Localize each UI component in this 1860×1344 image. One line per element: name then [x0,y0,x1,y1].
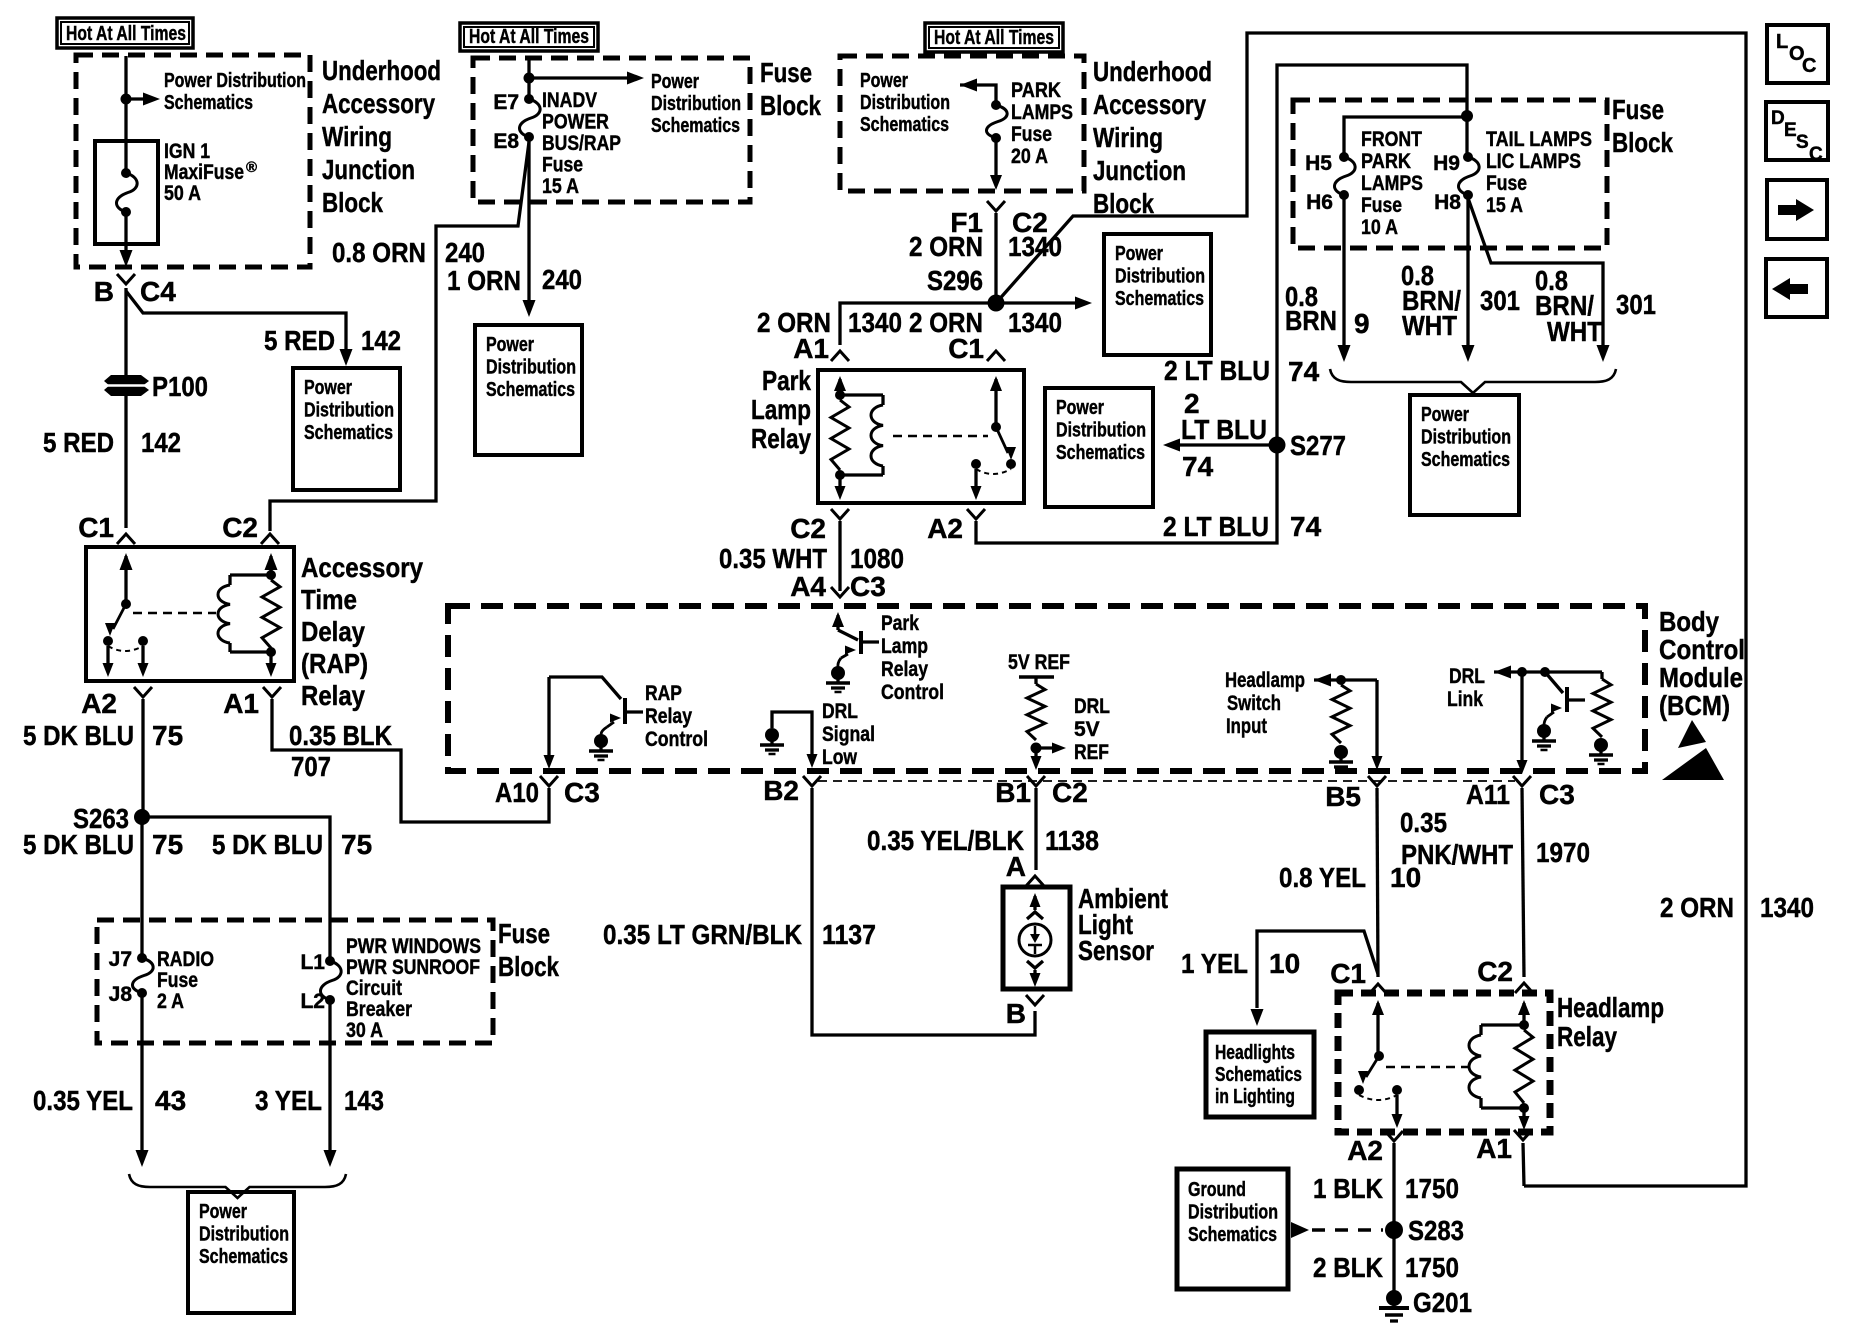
connector C2 (RAP relay) [261,534,279,544]
svg-text:Fuse: Fuse [498,918,550,949]
svg-text:9: 9 [1354,308,1370,339]
svg-text:A1: A1 [223,688,259,719]
svg-text:PWR SUNROOF: PWR SUNROOF [346,956,480,979]
svg-text:B5: B5 [1325,781,1361,812]
label Hot At All Times (second) [460,23,598,51]
svg-text:(BCM): (BCM) [1659,690,1730,721]
svg-text:43: 43 [155,1085,186,1116]
svg-text:Relay: Relay [301,680,365,711]
wire Hot At All Times to INADV fuse [527,59,530,99]
svg-text:Power: Power [1115,243,1163,265]
DRL link transistor element [1545,672,1563,693]
svg-text:G201: G201 [1413,1287,1472,1318]
connector B1 C2 [1027,776,1045,786]
svg-text:C1: C1 [948,333,984,364]
svg-text:PWR WINDOWS: PWR WINDOWS [346,935,481,958]
svg-text:Block: Block [1093,188,1154,219]
svg-text:Hot At All Times: Hot At All Times [934,27,1054,49]
pass-through grommet P100 [104,375,149,387]
svg-text:DRL: DRL [1074,695,1110,718]
fuse INADV POWER BUS/RAP 15 A [524,94,534,104]
svg-text:Breaker: Breaker [346,998,412,1021]
connector A10 C3 [540,776,558,786]
wire A2 to G201 [1392,1143,1395,1295]
svg-text:Link: Link [1447,688,1483,711]
connector C1 (park lamp relay) [987,351,1005,361]
wire B5 to headlamp relay C1 (0.8 YEL 10) [1377,788,1378,977]
svg-text:Fuse: Fuse [542,154,583,177]
nav button previous (left arrow) [1766,259,1827,317]
wire breaker output 3 YEL 143 [328,1000,331,1150]
svg-text:30 A: 30 A [346,1019,383,1042]
svg-text:Schematics: Schematics [486,379,575,401]
svg-text:1 ORN: 1 ORN [447,265,521,296]
wire fuse output to connector C4 [124,212,127,250]
svg-text:Control: Control [1659,634,1745,665]
circuit breaker PWR WINDOWS PWR SUNROOF 30 A [325,956,335,966]
svg-text:in Lighting: in Lighting [1215,1086,1295,1108]
connector C1 (headlamp relay) [1369,984,1387,994]
svg-text:A1: A1 [793,333,829,364]
svg-text:L2: L2 [300,990,325,1013]
svg-text:WHT: WHT [1547,316,1602,347]
svg-text:5 DK BLU: 5 DK BLU [212,829,323,860]
RAP relay coil and resistor parallel branch [265,553,278,570]
wire 0.35 PNK/WHT 1970 (A11 to headlamp relay C2) [1522,788,1524,977]
ground (DRL signal low) [765,728,779,742]
wire 2 ORN 1340 from S296 to headlamp relay A1 (long route) [996,33,1746,1186]
junction block dashed box (Underhood Accessory Wiring Junction Block, left) [76,55,310,267]
ground (DRL link transistor) [1537,724,1551,738]
module dashed box Body Control Module (BCM) [448,606,1645,771]
wire S296 left branch to park lamp relay A1 [840,303,996,345]
svg-text:5V REF: 5V REF [1008,651,1070,674]
svg-text:LIC LAMPS: LIC LAMPS [1486,150,1581,173]
svg-text:301: 301 [1480,285,1520,316]
thin dashed connector row line under BCM [818,780,1515,782]
svg-text:POWER: POWER [542,111,609,134]
svg-text:REF: REF [1074,741,1109,764]
svg-text:B: B [1006,998,1026,1029]
svg-text:74: 74 [1288,356,1320,387]
connector A2 (headlamp relay) [1385,1131,1403,1141]
nav button LOC [1767,25,1828,83]
svg-text:Switch: Switch [1227,692,1281,715]
junction block dashed box (PARK LAMPS fuse) [840,56,1084,191]
svg-text:RADIO: RADIO [157,948,214,971]
svg-text:Relay: Relay [751,423,811,454]
svg-text:S296: S296 [927,265,983,296]
svg-text:Schematics: Schematics [304,422,393,444]
wire 5 RED 142 down to C1 [124,394,127,528]
svg-text:707: 707 [291,751,331,782]
svg-text:0.8 YEL: 0.8 YEL [1279,862,1366,893]
connector A4 C3 [831,587,849,597]
svg-text:74: 74 [1182,451,1214,482]
svg-text:1 YEL: 1 YEL [1181,948,1248,979]
wire branch 1 YEL 10 to Headlights Schematics in Lighting [1257,931,1378,1008]
ESD sensitivity symbol [1678,720,1706,748]
svg-text:Delay: Delay [301,616,365,647]
svg-text:Block: Block [760,90,821,121]
svg-text:Schematics: Schematics [651,115,740,137]
svg-text:0.35: 0.35 [1400,807,1447,838]
reference box Headlights Schematics in Lighting [1206,1032,1314,1117]
wire F1 to S296 [994,213,997,303]
node S263 [134,809,150,825]
svg-text:C1: C1 [78,512,114,543]
svg-text:5V: 5V [1074,718,1100,741]
RAP relay contact arrows to A2/A1 side [106,646,109,664]
svg-text:Control: Control [645,728,708,751]
svg-text:C4: C4 [140,276,176,307]
svg-text:A1: A1 [1476,1133,1512,1164]
svg-text:Power Distribution: Power Distribution [164,70,306,92]
wire feed to FRONT PARK LAMPS fuse H5 [1344,117,1467,157]
connector A (ambient light sensor) [1026,876,1044,886]
svg-text:Lamp: Lamp [751,394,811,425]
svg-text:75: 75 [152,829,183,860]
headlamp relay coil and resistor from C2 [1518,1000,1530,1015]
svg-text:Distribution: Distribution [304,400,394,422]
node S283 [1385,1221,1403,1239]
wire headlamp switch input to B5 [1375,680,1378,757]
svg-text:Accessory: Accessory [322,88,435,119]
svg-text:2 ORN: 2 ORN [1660,892,1734,923]
resistor (DRL link) [1600,672,1603,679]
svg-text:15 A: 15 A [542,175,579,198]
svg-text:A: A [1006,851,1026,882]
RAP relay dashed actuation link [133,612,216,615]
svg-text:Distribution: Distribution [1188,1202,1278,1224]
svg-text:A4: A4 [790,571,826,602]
svg-text:1080: 1080 [850,543,904,574]
connector B (ambient light sensor) [1026,995,1044,1005]
svg-text:P100: P100 [152,371,208,402]
svg-text:®: ® [246,159,257,176]
connector A1 (headlamp relay) [1514,1130,1532,1140]
reference box Power Distribution Schematics (right of S296) [1104,234,1211,355]
svg-text:Signal: Signal [822,723,875,746]
reference box Power Distribution Schematics (below INADV) [475,325,582,455]
svg-text:PARK: PARK [1011,79,1061,102]
svg-text:A11: A11 [1466,779,1510,810]
wire H8 output 0.8 BRN/WHT 301 (straight) [1466,195,1469,345]
svg-text:H5: H5 [1305,152,1332,175]
svg-text:0.35 WHT: 0.35 WHT [719,543,827,574]
svg-text:Relay: Relay [1557,1021,1617,1052]
svg-text:Headlamp: Headlamp [1225,669,1305,692]
svg-text:Junction: Junction [1093,155,1186,186]
connector A1 (park lamp relay) [831,351,849,361]
svg-text:2 LT BLU: 2 LT BLU [1164,355,1270,386]
wire H6 output 0.8 BRN 9 [1342,195,1345,345]
reference box Power Distribution Schematics (right of park lamp relay) [1045,388,1153,507]
svg-text:Module: Module [1659,662,1743,693]
svg-text:10: 10 [1269,948,1300,979]
svg-text:E7: E7 [493,91,519,114]
svg-text:TAIL LAMPS: TAIL LAMPS [1486,128,1592,151]
wire S263 branch to PWR WINDOWS breaker [142,817,330,961]
svg-text:BUS/RAP: BUS/RAP [542,132,621,155]
RAP relay switch common from C1 [120,553,133,570]
svg-text:Distribution: Distribution [199,1224,289,1246]
connector A11 C3 [1513,776,1531,786]
fuse IGN 1 MaxiFuse 50 A element [121,168,131,178]
fuse IGN 1 MaxiFuse 50 A outline [95,141,158,244]
svg-text:1750: 1750 [1405,1173,1459,1204]
nav button DESC [1766,102,1828,160]
svg-text:Park: Park [881,612,919,635]
wire 0.35 BLK 707 from RAP relay A1 to BCM A10 [272,699,549,822]
svg-text:J7: J7 [109,948,132,971]
svg-text:B: B [94,276,114,307]
wire A1 to 2 ORN 1340 line [1523,1143,1524,1186]
svg-text:Body: Body [1659,606,1719,637]
svg-text:Block: Block [498,951,559,982]
svg-text:Power: Power [304,377,352,399]
transistor RAP Relay Control [547,677,550,758]
svg-text:DRL: DRL [822,700,858,723]
svg-text:Block: Block [1612,127,1673,158]
svg-text:Relay: Relay [881,658,928,681]
svg-text:Power: Power [860,70,908,92]
svg-text:5 DK BLU: 5 DK BLU [23,720,134,751]
svg-text:C: C [1802,55,1816,77]
svg-text:5 DK BLU: 5 DK BLU [23,829,134,860]
svg-text:H6: H6 [1306,191,1333,214]
svg-text:Time: Time [301,584,357,615]
svg-text:1340: 1340 [848,307,902,338]
svg-text:Wiring: Wiring [1093,122,1163,153]
wire RADIO fuse output 0.35 YEL 43 [140,993,143,1150]
svg-text:INADV: INADV [542,89,597,112]
park lamp relay dashed actuation link [893,435,988,438]
svg-text:2 BLK: 2 BLK [1313,1252,1383,1283]
label Hot At All Times (left) [57,18,193,48]
svg-text:L1: L1 [300,951,325,974]
connector A2 (park lamp relay bottom) [967,509,985,519]
node junction to Power Distribution Schematics (second) [524,73,535,84]
svg-text:A2: A2 [927,513,963,544]
svg-text:C2: C2 [1477,956,1513,987]
svg-text:Control: Control [881,681,944,704]
label Hot At All Times (third) [925,23,1063,52]
svg-text:50 A: 50 A [164,182,201,205]
svg-text:1340: 1340 [1760,892,1814,923]
svg-text:Power: Power [651,71,699,93]
svg-text:Power: Power [486,334,534,356]
svg-text:C: C [1809,144,1823,165]
ground (park lamp relay control) [831,666,845,680]
svg-text:Low: Low [822,746,858,769]
svg-text:C1: C1 [1330,958,1366,989]
dashed wire from Ground Distribution Schematics to S283 [1291,1222,1309,1238]
svg-text:H9: H9 [1433,152,1460,175]
svg-text:75: 75 [341,829,372,860]
connector A2 (RAP relay) [134,687,152,697]
fuse RADIO 2 A [137,953,147,963]
svg-text:0.35 YEL/BLK: 0.35 YEL/BLK [867,825,1024,856]
svg-text:1340: 1340 [1008,231,1062,262]
wire connector C4 to P100 [124,288,127,377]
svg-text:D: D [1771,108,1785,129]
transistor Park Lamp Relay Control [832,612,844,627]
svg-text:A2: A2 [81,688,117,719]
svg-text:1138: 1138 [1045,825,1099,856]
node fuse block feed junction [1461,110,1473,122]
svg-text:Headlights: Headlights [1215,1042,1295,1064]
wire DRL Signal Low to B2 [772,712,812,754]
fuse PARK LAMPS 20 A [991,100,1001,110]
svg-text:0.35 YEL: 0.35 YEL [33,1085,133,1116]
svg-text:Fuse: Fuse [1612,94,1664,125]
svg-text:Schematics: Schematics [1421,449,1510,471]
svg-text:Wiring: Wiring [322,121,392,152]
svg-text:WHT: WHT [1402,310,1457,341]
arrow to Power Distribution Schematics (third, pointing left) [960,79,977,92]
svg-text:10: 10 [1390,862,1421,893]
relay box Accessory Time Delay (RAP) Relay [86,547,294,681]
svg-text:Distribution: Distribution [1056,420,1146,442]
svg-text:1340: 1340 [1008,307,1062,338]
svg-text:5 RED: 5 RED [43,427,114,458]
svg-text:3 YEL: 3 YEL [255,1085,322,1116]
arrow to Power Distribution Schematics (second) [529,76,628,79]
svg-text:Power: Power [1421,404,1469,426]
connector A1 (RAP relay) [263,687,281,697]
svg-text:B2: B2 [763,775,799,806]
svg-text:Power: Power [1056,397,1104,419]
svg-text:LAMPS: LAMPS [1011,101,1073,124]
relay box Park Lamp Relay [818,370,1024,503]
svg-text:C2: C2 [1052,777,1088,808]
svg-text:74: 74 [1290,511,1322,542]
RAP relay switch pivot [121,599,131,609]
brace to Power Distribution Schematics (bottom left) [129,1174,346,1198]
svg-text:PARK: PARK [1361,150,1411,173]
arrow to Power Distribution Schematics [126,97,148,100]
svg-text:B1: B1 [995,777,1031,808]
svg-text:Schematics: Schematics [1188,1224,1277,1246]
relay dashed box Headlamp Relay [1338,993,1550,1132]
ground (RAP relay control) [594,734,608,748]
svg-text:240: 240 [542,264,582,295]
ground (DRL link resistor) [1594,738,1608,752]
svg-text:DRL: DRL [1449,665,1485,688]
park lamp relay switch from C1 [990,376,1002,391]
svg-text:2 LT BLU: 2 LT BLU [1163,511,1269,542]
RAP relay switch arm [113,604,126,629]
node junction to Power Distribution Schematics [121,94,132,105]
connector B2 [803,776,821,786]
svg-text:Ground: Ground [1188,1179,1246,1201]
svg-text:10 A: 10 A [1361,216,1398,239]
svg-text:Lamp: Lamp [881,635,928,658]
svg-text:15 A: 15 A [1486,194,1523,217]
svg-text:0.8 ORN: 0.8 ORN [332,237,426,268]
svg-text:Fuse: Fuse [1361,194,1402,217]
wire S277 up to fuse block feed [1277,65,1467,445]
svg-text:2 A: 2 A [157,990,184,1013]
wire A2 to S277 (2 LT BLU 74) [976,445,1277,543]
svg-text:Distribution: Distribution [1115,266,1205,288]
svg-text:Accessory: Accessory [301,552,423,583]
svg-text:Schematics: Schematics [1056,442,1145,464]
svg-text:Park: Park [762,365,811,396]
svg-text:1970: 1970 [1536,837,1590,868]
svg-text:Schematics: Schematics [164,92,253,114]
svg-text:A10: A10 [495,777,539,808]
svg-text:1750: 1750 [1405,1252,1459,1283]
ground G201 [1386,1290,1402,1306]
connector B5 [1368,776,1386,786]
svg-text:142: 142 [141,427,181,458]
reference box Power Distribution Schematics (right) [1410,395,1519,515]
svg-text:0.35 LT GRN/BLK: 0.35 LT GRN/BLK [603,919,802,950]
svg-text:S283: S283 [1408,1215,1464,1246]
svg-text:A2: A2 [1347,1135,1383,1166]
svg-text:1137: 1137 [822,919,876,950]
svg-text:142: 142 [361,325,401,356]
connector B C4 [117,274,135,284]
svg-text:Fuse: Fuse [157,969,198,992]
fuse block dashed box (bottom left) [97,920,493,1043]
arrow S296 to Power Distribution Schematics [996,301,1076,304]
wire PARK LAMPS fuse output [994,138,997,175]
svg-text:143: 143 [344,1085,384,1116]
svg-text:E: E [1784,120,1797,141]
wire A2 to S263 [141,699,144,817]
svg-text:IGN 1: IGN 1 [164,140,210,163]
svg-text:Underhood: Underhood [322,55,441,86]
fuse block dashed box (INADV POWER BUS/RAP) [473,58,750,202]
svg-text:0.35 BLK: 0.35 BLK [289,720,392,751]
fuse FRONT PARK LAMPS 10 A [1339,152,1349,162]
connector F1 C2 [987,201,1005,211]
svg-text:LT BLU: LT BLU [1181,414,1267,445]
svg-text:J8: J8 [109,983,133,1006]
park lamp relay coil/resistor branch from A1 [834,376,846,391]
RAP relay switch contacts [103,636,113,646]
svg-text:Distribution: Distribution [486,357,576,379]
svg-text:Schematics: Schematics [199,1246,288,1268]
svg-text:C2: C2 [222,512,258,543]
svg-text:Sensor: Sensor [1078,935,1154,966]
ground (headlamp switch input) [1334,745,1348,759]
svg-text:C3: C3 [1539,779,1575,810]
svg-text:RAP: RAP [645,682,682,705]
connector C1 (RAP relay) [117,534,135,544]
wire S263 to RADIO fuse [140,817,143,958]
svg-text:C2: C2 [790,513,826,544]
reference box Power Distribution Schematics (below 5 RED branch) [293,368,400,490]
fuse TAIL LAMPS LIC LAMPS 15 A [1463,152,1473,162]
svg-text:20 A: 20 A [1011,145,1048,168]
svg-text:Headlamp: Headlamp [1557,992,1664,1023]
svg-text:S: S [1796,132,1809,153]
svg-text:Relay: Relay [645,705,692,728]
connector C2 (park lamp relay bottom) [831,509,849,519]
fuse block dashed box (right) [1293,100,1607,248]
svg-text:240: 240 [445,237,485,268]
svg-text:5 RED: 5 RED [264,325,335,356]
ambient light sensor internal symbol [1030,893,1041,907]
svg-text:S277: S277 [1290,430,1346,461]
brace to Power Distribution Schematics (right) [1330,369,1616,393]
svg-text:Block: Block [322,187,383,218]
svg-text:Junction: Junction [322,154,415,185]
